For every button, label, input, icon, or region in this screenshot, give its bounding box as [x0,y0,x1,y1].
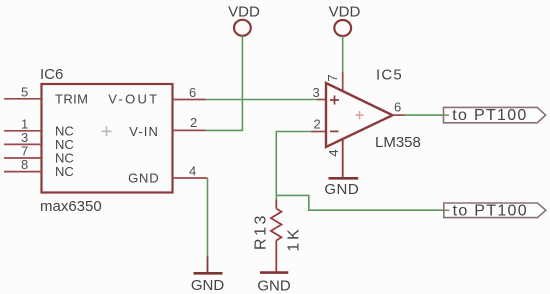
svg-text:6: 6 [189,85,196,100]
svg-text:7: 7 [325,74,340,81]
VDD symbol 2 [334,20,351,36]
opamp minus input mark [330,130,339,132]
svg-text:R13: R13 [252,213,269,250]
svg-text:1K: 1K [286,226,303,251]
svg-text:VDD: VDD [228,3,260,20]
svg-text:V-OUT: V-OUT [108,91,159,106]
opamp pin 7 stub [342,72,344,92]
svg-text:2: 2 [190,115,197,130]
svg-text:3: 3 [313,85,320,100]
pin 6 V-OUT stub [173,99,206,101]
svg-text:6: 6 [394,100,401,115]
svg-text:4: 4 [326,149,341,156]
opamp plus input mark [330,96,339,105]
svg-text:V-IN: V-IN [129,124,159,139]
pin 4 GND stub [173,177,208,179]
pin 8 (NC) [4,171,42,173]
ground opamp [329,177,359,180]
svg-text:NC: NC [55,164,74,179]
IC6 origin cross [102,126,112,136]
svg-text:GND: GND [191,277,225,294]
opamp pin 4 stub to ground [342,139,344,177]
pin 3 (NC) [4,143,42,145]
wire VDD1 to V-IN [206,36,243,131]
ground lead IC6 [207,257,209,273]
svg-text:max6350: max6350 [40,198,102,215]
resistor R13 [271,209,282,241]
wire VDD2 to opamp pin7 [342,36,344,72]
svg-text:GND: GND [324,181,359,198]
ground IC6 [194,272,223,275]
svg-text:2: 2 [314,117,321,132]
opamp pin 6 output stub [393,114,406,116]
net flag to PT100 lower [444,203,546,218]
svg-text:IC6: IC6 [40,66,63,83]
svg-text:GND: GND [257,278,291,294]
net flag to PT100 upper [444,107,546,122]
svg-text:4: 4 [189,164,196,179]
opamp pin 2 stub [311,131,327,133]
svg-text:to PT100: to PT100 [453,202,528,219]
wire opamp pin2 to R13 and flag [276,132,311,200]
pin 5 (TRIM) [4,98,42,100]
wire IC6 pin4 to GND [207,178,209,257]
R13 top lead [275,200,277,209]
VDD symbol 1 [234,20,251,36]
opamp pin 3 stub [317,99,327,101]
svg-text:VDD: VDD [329,3,361,20]
opamp origin cross [356,111,364,119]
svg-text:5: 5 [21,84,28,99]
svg-text:GND: GND [128,171,159,186]
svg-text:8: 8 [21,157,28,172]
svg-text:IC5: IC5 [376,67,403,84]
wire V-OUT to opamp pin3 [206,99,318,101]
pin 7 (NC) [4,157,42,159]
pin 1 (NC) [4,130,42,132]
ground R13 [260,271,288,274]
svg-text:to PT100: to PT100 [452,107,527,124]
op-amp U IC5 [326,83,393,147]
svg-text:TRIM: TRIM [55,91,88,106]
IC6 box [42,84,173,193]
R13 bottom lead [275,241,277,273]
wire output to flag 1 [405,114,444,116]
svg-text:LM358: LM358 [375,134,421,151]
wire junction to flag 2 [276,195,444,210]
pin 2 V-IN stub [173,129,206,131]
